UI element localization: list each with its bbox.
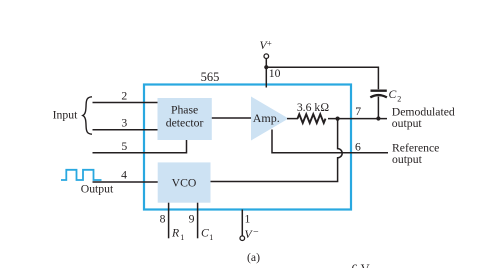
wire resistor junction to VCO with hop over pin6 wire bbox=[211, 119, 343, 182]
svg-text:2: 2 bbox=[397, 95, 401, 104]
svg-text:Input: Input bbox=[53, 109, 78, 122]
svg-text:Amp.: Amp. bbox=[253, 111, 280, 125]
pin 8 lead bbox=[168, 203, 170, 239]
wire V+ node to C2 bbox=[266, 67, 378, 89]
svg-text:1: 1 bbox=[209, 233, 213, 242]
svg-text:9: 9 bbox=[189, 212, 195, 225]
wire pin 5 bbox=[93, 140, 187, 153]
pin 1 lead bbox=[241, 210, 243, 236]
IC outline U1 565 bbox=[144, 85, 351, 210]
label V+ bbox=[260, 39, 272, 53]
svg-text:detector: detector bbox=[166, 117, 204, 130]
svg-text:6: 6 bbox=[355, 140, 361, 153]
svg-text:C: C bbox=[389, 88, 397, 101]
VCO block bbox=[158, 162, 211, 202]
svg-text:output: output bbox=[392, 117, 423, 130]
label C2 bbox=[389, 88, 402, 104]
junction C2/pin7 bbox=[376, 116, 380, 120]
wire V+ to pin 10 bbox=[265, 59, 267, 88]
label R1 bbox=[171, 227, 184, 242]
capacitor C2 bbox=[370, 91, 387, 119]
svg-text:10: 10 bbox=[269, 67, 281, 80]
svg-text:Phase: Phase bbox=[171, 104, 198, 117]
svg-text:output: output bbox=[392, 153, 423, 166]
V+ terminal bbox=[264, 54, 269, 59]
svg-text:(a): (a) bbox=[247, 251, 260, 264]
svg-text:−: − bbox=[253, 227, 259, 238]
svg-text:3.6 kΩ: 3.6 kΩ bbox=[297, 101, 329, 114]
wire phase detector to amp bbox=[212, 117, 251, 119]
junction V+ node bbox=[264, 65, 268, 69]
label C1 bbox=[201, 227, 213, 242]
svg-text:5: 5 bbox=[121, 140, 127, 153]
input brace bbox=[83, 97, 92, 134]
svg-text:C: C bbox=[201, 227, 209, 240]
wire amp output to pin 6 bbox=[272, 130, 388, 153]
wire pin 4 bbox=[93, 181, 158, 183]
label V- bbox=[245, 227, 260, 241]
svg-text:2: 2 bbox=[121, 89, 127, 102]
svg-text:565: 565 bbox=[201, 70, 220, 84]
op-amp U2 Amp bbox=[251, 97, 289, 141]
label Reference output bbox=[392, 141, 439, 166]
label Demodulated output bbox=[392, 106, 455, 130]
svg-text:VCO: VCO bbox=[172, 176, 197, 189]
svg-text:8: 8 bbox=[160, 212, 166, 225]
junction resistor/pin7 bbox=[336, 117, 340, 121]
svg-text:4: 4 bbox=[121, 168, 127, 181]
svg-text:+: + bbox=[267, 39, 272, 49]
wire amp to resistor bbox=[287, 118, 298, 120]
svg-text:3: 3 bbox=[121, 117, 127, 130]
svg-text:1: 1 bbox=[245, 213, 251, 226]
square wave symbol bbox=[61, 170, 102, 180]
V- terminal bbox=[240, 236, 245, 241]
svg-text:6 V: 6 V bbox=[352, 262, 370, 268]
wire pin 7 output bbox=[328, 118, 387, 120]
svg-text:Output: Output bbox=[81, 182, 114, 195]
wire pin 2 bbox=[93, 102, 158, 104]
svg-text:7: 7 bbox=[355, 105, 361, 118]
wire pin 3 bbox=[93, 129, 158, 131]
phase detector block bbox=[158, 98, 212, 140]
svg-text:1: 1 bbox=[180, 233, 184, 242]
resistor R 3.6k bbox=[298, 114, 326, 123]
svg-text:R: R bbox=[171, 227, 179, 240]
pin 9 lead bbox=[197, 203, 199, 239]
